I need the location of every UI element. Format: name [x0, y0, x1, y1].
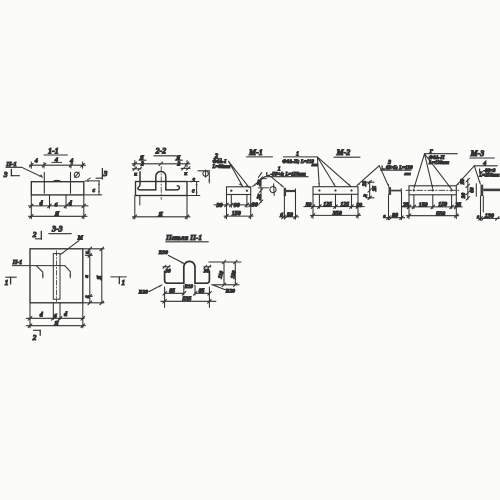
callout G F6A-II L=130mm — [414, 149, 457, 189]
top dimension line A/2 A/2 — [132, 155, 190, 167]
svg-text:б: б — [280, 212, 283, 219]
view 2-2 — [132, 147, 210, 220]
svg-text:50: 50 — [356, 203, 362, 209]
svg-text:30: 30 — [216, 203, 223, 209]
extension lines right — [83, 248, 104, 250]
svg-text:к: к — [86, 251, 91, 254]
dim line 25 150 150 25 — [402, 202, 463, 209]
section mark 1 left — [5, 277, 17, 287]
svg-text:50: 50 — [306, 202, 312, 208]
dim line A bottom — [133, 211, 191, 219]
svg-text:30: 30 — [460, 179, 466, 186]
block body 2-2 — [136, 182, 188, 196]
svg-text:30: 30 — [461, 193, 467, 200]
svg-text:2: 2 — [140, 161, 144, 167]
slot opening — [53, 254, 60, 300]
title Petlya P-1 — [165, 233, 208, 242]
height dims right — [209, 260, 241, 286]
svg-text:Я: Я — [53, 320, 59, 327]
svg-text:90: 90 — [234, 203, 240, 209]
dim c right — [84, 181, 102, 195]
svg-text:б: б — [55, 202, 58, 209]
side view angle leg vertical — [284, 188, 286, 196]
side view extension lines — [283, 196, 285, 219]
dim line d b d bottom — [26, 311, 84, 320]
svg-text:85: 85 — [199, 288, 205, 294]
anchor dots M-3 — [413, 189, 415, 191]
weld diameter symbol — [270, 184, 276, 196]
svg-text:130: 130 — [485, 213, 494, 219]
loop legs edge view — [43, 172, 45, 193]
callout angle 63x5 L=130mm — [357, 160, 414, 188]
svg-text:3-3: 3-3 — [51, 225, 63, 234]
dim line 6 80 — [383, 213, 404, 219]
callout F6A-II L=110 — [282, 152, 317, 167]
dim line A bottom — [26, 320, 85, 328]
svg-text:25: 25 — [402, 203, 409, 209]
section mark 1 right — [111, 277, 127, 287]
svg-text:c: c — [192, 188, 195, 194]
dim 30 right hook — [203, 265, 211, 274]
extension lines M-2 bottom — [312, 194, 314, 218]
svg-text:б: б — [54, 313, 57, 320]
anchor dots M-1 — [230, 190, 232, 192]
detail M-2 — [304, 148, 413, 220]
dim line 6 50 — [279, 212, 298, 219]
label P-1 with leader — [5, 161, 43, 178]
square slab outline — [30, 249, 83, 303]
svg-text:М-1: М-1 — [248, 148, 263, 157]
dim 30 left hook — [163, 265, 171, 274]
centerline dash-dot — [406, 189, 460, 191]
svg-text:125: 125 — [323, 202, 332, 208]
svg-text:4: 4 — [34, 159, 38, 165]
side view angle leg horizontal — [391, 190, 401, 192]
svg-text:а: а — [84, 275, 90, 278]
svg-text:c: c — [93, 188, 96, 194]
callout 2 F6A-I L=80mm — [212, 153, 250, 187]
diameter symbol right — [203, 170, 208, 177]
svg-text:1-1: 1-1 — [48, 147, 59, 156]
dim line 350 — [310, 211, 360, 217]
section mark 3 top-right — [96, 169, 108, 180]
svg-text:350: 350 — [332, 211, 342, 217]
side view angle leg horizontal rod — [286, 190, 295, 192]
callout angle 80x8 L=250mm — [456, 161, 500, 186]
title 3-3 — [49, 225, 72, 234]
leader fan to three anchors — [317, 157, 351, 187]
side view angle leg vertical — [389, 187, 392, 195]
svg-text:550: 550 — [436, 211, 445, 217]
dim line 550 — [406, 211, 459, 217]
centerline dashed — [160, 167, 162, 200]
hanging vertical dim — [208, 172, 210, 184]
svg-text:R30: R30 — [158, 250, 169, 256]
title M-1 — [247, 148, 273, 157]
extension lines M-1 bottom — [226, 195, 228, 219]
svg-text:2: 2 — [32, 230, 37, 239]
svg-text:М-2: М-2 — [336, 148, 351, 157]
dim chain k a k right — [84, 247, 91, 305]
chamfer dim arrow right — [84, 178, 99, 182]
loop protrusion ref line — [198, 170, 210, 172]
svg-text:3: 3 — [3, 170, 8, 179]
label M with leader — [60, 236, 84, 255]
side view angle leg horizontal rod — [483, 189, 500, 192]
view 1-1 — [3, 147, 108, 240]
arrow b right — [187, 176, 199, 182]
title M-2 — [334, 148, 360, 157]
svg-text:R20: R20 — [225, 288, 236, 294]
svg-text:R10: R10 — [185, 285, 194, 290]
plate body 1-1 — [31, 182, 84, 195]
plate M-1 front — [227, 187, 251, 195]
label P-1 with leader line — [12, 260, 72, 278]
dim line 50 125 125 50 — [304, 202, 365, 209]
svg-text:85: 85 — [169, 289, 175, 295]
side view extension lines — [388, 195, 390, 220]
extension lines M-3 bottom — [408, 195, 410, 219]
section mark 2 top of view 3-3 — [32, 230, 42, 239]
small dim k left — [133, 167, 142, 177]
svg-text:мм: мм — [311, 162, 318, 167]
dim c right — [187, 182, 200, 196]
label R20 left with leader — [138, 285, 163, 296]
svg-text:150: 150 — [438, 202, 447, 208]
extension lines for dim A — [134, 196, 136, 220]
plate M-2 front — [313, 187, 358, 195]
dim line 6 130 — [477, 213, 500, 220]
dim 85 left — [163, 289, 186, 296]
dim line 535 — [161, 297, 216, 304]
detail M-1 — [212, 148, 318, 219]
side view angle leg vertical — [481, 185, 484, 196]
dim line A right — [97, 247, 104, 305]
title M-3 — [470, 149, 495, 158]
svg-text:мм: мм — [403, 171, 410, 176]
svg-text:к: к — [86, 295, 91, 298]
dim line A total — [29, 210, 88, 218]
svg-text:R20: R20 — [138, 289, 149, 295]
dim line 30 90 30 — [214, 202, 259, 209]
svg-text:Ф6А-ІІ; L=110: Ф6А-ІІ; L=110 — [282, 160, 314, 165]
svg-text:30: 30 — [203, 268, 210, 274]
svg-text:М-3: М-3 — [470, 149, 485, 158]
diameter symbol — [74, 172, 79, 177]
dim line d b d — [29, 200, 89, 209]
svg-text:80: 80 — [392, 213, 398, 219]
svg-text:30: 30 — [164, 268, 171, 274]
svg-text:2: 2 — [32, 333, 37, 342]
svg-text:25: 25 — [362, 181, 368, 188]
svg-text:Петля П-1: Петля П-1 — [165, 233, 202, 242]
extension lines below plate — [30, 195, 32, 219]
loop bar P-1 inside block — [138, 172, 180, 190]
svg-text:Я: Я — [157, 211, 163, 218]
svg-text:Я: Я — [97, 275, 103, 281]
svg-text:Я: Я — [54, 210, 60, 217]
svg-text:L=80мм: L=80мм — [212, 165, 231, 170]
stub below block left — [139, 196, 141, 206]
svg-text:150: 150 — [419, 203, 428, 209]
svg-text:50: 50 — [287, 212, 293, 218]
svg-text:125: 125 — [340, 202, 349, 208]
svg-text:1: 1 — [5, 278, 9, 287]
anchor dots M-2 — [318, 189, 320, 191]
svg-text:25: 25 — [454, 203, 461, 209]
svg-text:L=250мм: L=250мм — [478, 173, 500, 178]
extension lines 535 — [164, 287, 166, 307]
small dim k right — [181, 167, 190, 177]
svg-text:П-1: П-1 — [5, 161, 17, 168]
svg-text:3: 3 — [103, 169, 108, 178]
view 3-3 plan — [5, 236, 127, 343]
leader to angle side view — [271, 176, 285, 187]
loop bar bent shape — [165, 261, 210, 283]
svg-text:30: 30 — [251, 202, 258, 208]
section mark 3 bottom-left — [3, 169, 20, 179]
vertical dim chain 30 60 30 — [460, 178, 476, 200]
detail M-3 — [402, 149, 500, 220]
plate M-3 top view — [409, 186, 456, 195]
side view extension lines — [480, 196, 482, 220]
dim 85 right — [193, 288, 211, 295]
svg-text:3: 3 — [387, 160, 391, 166]
svg-text:2-2: 2-2 — [155, 147, 167, 156]
section mark 2 bottom — [32, 330, 41, 342]
svg-text:4: 4 — [69, 157, 73, 164]
svg-text:1: 1 — [121, 278, 125, 287]
detail loop Petlya P-1 — [138, 233, 241, 308]
title 2-2 — [154, 147, 177, 156]
svg-text:2: 2 — [176, 161, 180, 167]
svg-text:М: М — [77, 236, 84, 242]
extension lines bottom — [29, 303, 31, 328]
top dimension line — [30, 156, 86, 168]
title 1-1 — [44, 147, 68, 156]
callout angle 50x4 L=150mm — [252, 167, 308, 187]
dim line 150 — [224, 211, 253, 218]
svg-text:25: 25 — [372, 186, 378, 193]
vertical dim chain 25 25 — [362, 180, 378, 199]
label R30 with leader — [158, 250, 185, 264]
svg-text:к: к — [184, 171, 187, 177]
slot centerline dash-dot — [56, 251, 58, 302]
svg-text:60: 60 — [470, 187, 476, 193]
svg-text:150: 150 — [232, 211, 241, 217]
vertical dim 25 25 — [256, 177, 269, 204]
label R20 right with leader — [211, 284, 235, 294]
svg-text:к: к — [134, 171, 137, 177]
loop arc bump on plate top — [52, 180, 61, 181]
svg-text:535: 535 — [182, 297, 191, 303]
